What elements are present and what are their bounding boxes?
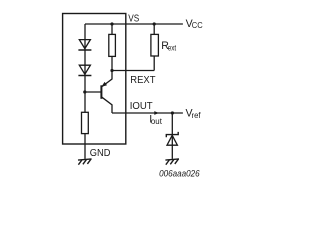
wire Rext top stub (153, 24, 155, 34)
svg-text:GND: GND (90, 148, 111, 159)
resistor R1 (top internal) (109, 34, 116, 56)
wire R1 top stub (111, 24, 113, 34)
ground symbol (Vref) (165, 159, 179, 165)
arrow Iout current (154, 111, 159, 115)
svg-text:out: out (151, 117, 163, 126)
IC boundary box (63, 14, 126, 145)
svg-text:ref: ref (192, 111, 202, 120)
node VS-R1 junction (110, 22, 113, 25)
wire R2 to ground (84, 134, 86, 159)
node Vref junction (171, 111, 174, 114)
svg-text:ext: ext (168, 43, 177, 52)
svg-text:006aaa026: 006aaa026 (159, 168, 200, 179)
wire IOUT net (112, 112, 183, 114)
diode D1 (79, 40, 90, 49)
node base junction (83, 90, 86, 93)
wire Rext bottom stub (153, 56, 155, 71)
node VS-Rext junction (153, 22, 156, 25)
zener diode D3 (166, 132, 178, 137)
svg-text:REXT: REXT (130, 75, 156, 86)
transistor Q1 collector (101, 97, 112, 113)
resistor R2 (bottom internal) (82, 112, 89, 133)
svg-text:IOUT: IOUT (130, 101, 154, 112)
wire VS net (top horizontal to VCC) (85, 23, 183, 25)
transistor Q1 emitter (101, 71, 112, 88)
diode D2 (79, 65, 90, 74)
wire zener branch (through D3) (171, 113, 173, 159)
svg-text:VS: VS (128, 13, 139, 24)
wire R1 bottom stub (111, 56, 113, 70)
transistor Q1 base bar (100, 85, 102, 99)
ground GND symbol (78, 159, 92, 165)
wire diode branch (through D1,D2) (84, 24, 86, 112)
wire REXT net (112, 70, 154, 72)
resistor Rext (151, 34, 159, 56)
wire base (85, 91, 101, 93)
svg-text:CC: CC (192, 21, 203, 30)
node REXT junction (110, 69, 113, 72)
